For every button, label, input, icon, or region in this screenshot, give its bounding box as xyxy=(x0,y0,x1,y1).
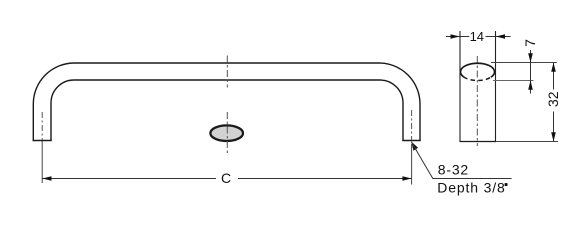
ellipse top extension line xyxy=(491,62,557,64)
left extension line xyxy=(41,141,43,183)
14 left arrowhead xyxy=(451,34,460,39)
side view top ellipse solid arc xyxy=(461,63,495,77)
inch mark xyxy=(505,183,508,186)
right extension line xyxy=(411,144,413,185)
svg-text:8-32: 8-32 xyxy=(438,162,469,178)
C dimension line right segment xyxy=(238,178,412,180)
svg-text:32: 32 xyxy=(545,91,561,107)
C dim right arrowhead xyxy=(402,176,411,181)
32 bottom arrowhead (down) xyxy=(551,132,556,141)
ellipse bottom extension line xyxy=(493,80,534,82)
leader arrowhead at right leg bottom xyxy=(411,142,418,151)
handle outer outline (front view) xyxy=(33,63,420,141)
svg-text:C: C xyxy=(221,170,231,186)
14 dim line left part xyxy=(446,36,469,38)
7 top arrowhead (down) xyxy=(528,53,533,62)
32 top arrowhead (up) xyxy=(551,63,556,72)
right leg centerline (dashed) xyxy=(411,110,413,140)
hole centerline upper segment xyxy=(226,56,228,88)
32 dim line upper xyxy=(553,63,555,90)
C dimension line left segment xyxy=(42,178,216,180)
side view bottom extension line xyxy=(496,141,558,143)
7 dim vertical line xyxy=(530,50,532,94)
14 right arrowhead xyxy=(496,34,505,39)
right leg bottom cap xyxy=(402,140,420,142)
svg-text:7: 7 xyxy=(522,39,538,47)
side view right edge + extension xyxy=(495,31,497,141)
side view left edge + extension xyxy=(459,31,461,141)
leader line xyxy=(411,142,511,179)
left leg bottom cap xyxy=(33,140,52,142)
C dim left arrowhead xyxy=(42,176,51,181)
hole centerline lower segment xyxy=(226,112,228,154)
32 dim line lower xyxy=(553,112,555,142)
14 dim line right part xyxy=(486,36,511,38)
screw hole ellipse (front view, gray filled) xyxy=(210,125,243,141)
left leg centerline (dashed) xyxy=(41,112,43,140)
svg-text:14: 14 xyxy=(470,29,484,44)
svg-text:Depth 3/8: Depth 3/8 xyxy=(437,180,505,196)
side view centerline (dashed) xyxy=(476,56,478,146)
side view top ellipse hidden arc (dashed bottom) xyxy=(464,77,492,81)
7 bottom arrowhead (up) xyxy=(528,81,533,90)
side view bottom xyxy=(460,141,497,143)
handle inner outline (front view) xyxy=(51,80,403,141)
